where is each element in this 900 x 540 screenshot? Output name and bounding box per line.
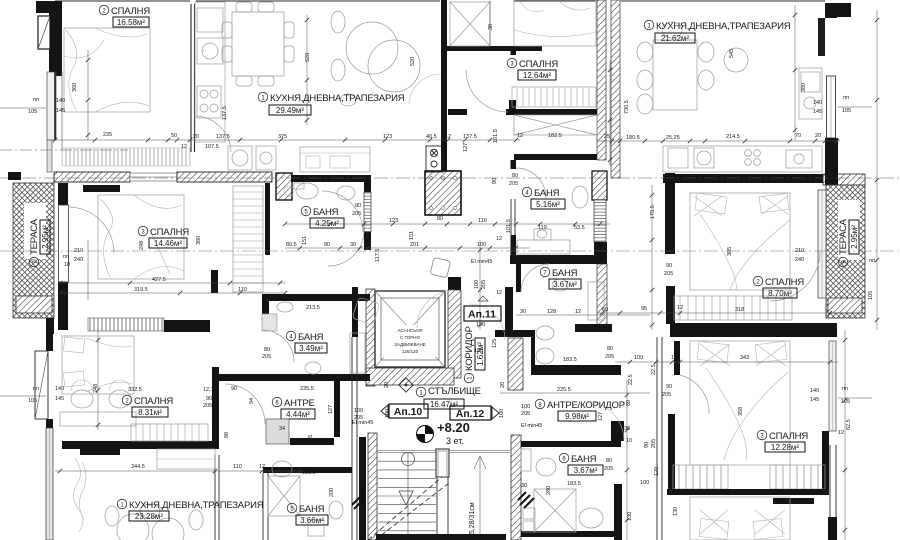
label antre6 — [272, 397, 315, 419]
bath7 west wall — [516, 264, 521, 292]
svg-text:9.98м²: 9.98м² — [565, 412, 589, 421]
svg-text:12,10: 12,10 — [203, 387, 217, 393]
svg-text:100: 100 — [640, 480, 649, 486]
scribble near stairs door — [352, 495, 364, 509]
svg-text:100: 100 — [354, 408, 363, 414]
bath5 door arc — [322, 191, 363, 232]
level mark +8.20 — [417, 420, 470, 446]
apartment tag Ap12 — [450, 406, 499, 420]
right exterior window kitchen — [827, 76, 836, 138]
svg-text:СТЪЛБИЩЕ: СТЪЛБИЩЕ — [428, 386, 481, 397]
svg-text:пп: пп — [33, 97, 39, 103]
svg-text:101.5: 101.5 — [506, 219, 512, 233]
svg-text:205: 205 — [664, 271, 673, 277]
svg-text:183.5: 183.5 — [563, 357, 577, 363]
elevator car — [375, 291, 445, 367]
right tall cabinet dark — [818, 18, 825, 56]
bedroom2BL wardrobe hangers — [131, 424, 208, 441]
svg-text:344.5: 344.5 — [131, 464, 145, 470]
elevator shaft bottom hatched wall — [366, 368, 454, 385]
svg-text:151: 151 — [302, 236, 308, 245]
antre6 door arc — [225, 384, 265, 424]
extra dim texts — [222, 106, 228, 120]
svg-text:12: 12 — [677, 305, 683, 311]
TR bed with pillows — [514, 0, 596, 46]
column corridor east wall upper — [352, 287, 358, 337]
party wall hatched band A — [597, 0, 606, 160]
svg-text:80: 80 — [606, 458, 612, 464]
bedroom3L wardrobe shelves — [233, 186, 263, 292]
svg-text:375: 375 — [278, 134, 287, 140]
bath4b door arc — [262, 330, 294, 362]
svg-text:СПАЛНЯ: СПАЛНЯ — [769, 431, 808, 442]
svg-text:22.5: 22.5 — [651, 364, 657, 375]
svg-text:101.5: 101.5 — [493, 129, 499, 143]
window in band — [130, 173, 177, 181]
TL washer/sink under band — [228, 146, 276, 170]
svg-text:210: 210 — [795, 248, 804, 254]
left wall lower black piece — [46, 330, 53, 351]
bedroom3BR wardrobe left — [673, 465, 728, 489]
antre6 east nib — [334, 381, 340, 437]
svg-text:29.49м²: 29.49м² — [276, 106, 305, 115]
svg-text:12: 12 — [445, 134, 451, 140]
svg-text:89: 89 — [626, 400, 632, 406]
svg-text:3.49м²: 3.49м² — [299, 344, 323, 353]
svg-text:137.5: 137.5 — [216, 134, 230, 140]
bath5 fixtures — [284, 183, 355, 200]
svg-text:БАНЯ: БАНЯ — [552, 268, 578, 279]
svg-text:145: 145 — [55, 396, 64, 402]
bath7 door arc — [521, 264, 549, 292]
svg-text:3.67м²: 3.67м² — [574, 466, 598, 475]
svg-text:318: 318 — [735, 307, 744, 313]
label bath5b — [287, 503, 328, 525]
svg-text:380: 380 — [801, 83, 807, 92]
left wall bottom gray band — [46, 428, 53, 540]
stair slope text vertical — [469, 502, 476, 538]
svg-text:183.5: 183.5 — [302, 470, 316, 476]
svg-text:380: 380 — [196, 236, 202, 245]
svg-text:130: 130 — [673, 507, 679, 516]
riser pipes TL kitchen — [426, 146, 443, 172]
svg-text:183.5: 183.5 — [567, 481, 581, 487]
svg-text:El min45: El min45 — [471, 259, 492, 265]
bottom right radiator2 — [482, 0, 484, 1]
svg-text:АНТРЕ/КОРИДОР: АНТРЕ/КОРИДОР — [547, 400, 625, 411]
svg-text:16.58м²: 16.58м² — [117, 18, 146, 27]
stair treads — [378, 452, 436, 540]
svg-text:53.5: 53.5 — [574, 225, 585, 231]
svg-text:110: 110 — [233, 464, 242, 470]
svg-text:21.62м²: 21.62м² — [661, 34, 690, 43]
svg-text:80: 80 — [301, 438, 307, 444]
bedroom2R west wall double lines — [665, 173, 675, 254]
bath4b fixtures — [262, 302, 365, 374]
svg-text:100: 100 — [474, 280, 480, 289]
svg-text:130: 130 — [627, 512, 633, 521]
bedroom2BL south wall L-shape — [62, 441, 215, 449]
TL round table circles — [331, 11, 420, 106]
diamond marker — [399, 378, 413, 392]
stairs west gray wall — [368, 433, 377, 540]
bath5b north wall — [263, 467, 352, 473]
svg-text:100: 100 — [476, 322, 485, 328]
bedroom3BR wardrobe right — [770, 465, 825, 489]
svg-text:100: 100 — [477, 242, 486, 248]
bath4 door arc — [516, 168, 546, 198]
svg-text:БАНЯ: БАНЯ — [571, 454, 597, 465]
svg-text:128: 128 — [547, 309, 556, 315]
svg-text:140: 140 — [810, 388, 819, 394]
wall below BR window — [822, 431, 829, 495]
bedroom3BR east wall lower double — [830, 445, 836, 540]
label stairwell — [416, 386, 481, 409]
svg-text:248: 248 — [139, 241, 145, 250]
label kitchen TL — [258, 92, 405, 115]
svg-text:1.62м²: 1.62м² — [476, 342, 485, 366]
svg-text:70: 70 — [795, 133, 801, 139]
svg-text:пп: пп — [63, 254, 69, 260]
svg-text:80: 80 — [264, 347, 270, 353]
wall stub below terrace — [46, 318, 54, 334]
svg-text:23.28м²: 23.28м² — [135, 512, 164, 521]
svg-text:120/120: 120/120 — [402, 349, 419, 354]
svg-text:СПАЛНЯ: СПАЛНЯ — [111, 6, 150, 17]
svg-text:пп: пп — [843, 95, 849, 101]
label bath7 — [540, 267, 581, 289]
partition bedroom/kitchen top-left — [191, 4, 195, 152]
bedroom2BL bed — [62, 336, 134, 394]
svg-text:127: 127 — [598, 412, 604, 421]
bedroom3BR door arc — [680, 375, 709, 414]
svg-text:90: 90 — [492, 178, 498, 184]
svg-text:100: 100 — [385, 409, 391, 418]
label antre8 — [535, 399, 625, 421]
antre6 cabinet — [266, 419, 289, 444]
terrace label plate — [24, 203, 46, 259]
label bath6 — [559, 453, 603, 475]
axis dash segment left — [0, 149, 128, 151]
svg-text:+8.20: +8.20 — [437, 420, 470, 435]
svg-text:20: 20 — [193, 134, 199, 140]
bottom right partial bed — [690, 497, 790, 540]
bedroom2BL desk chairs — [60, 380, 136, 426]
bedroom2R north wall hatched right part — [823, 174, 865, 185]
svg-text:210: 210 — [74, 248, 83, 254]
small tilted box corridor — [352, 297, 380, 325]
right terrace bench — [828, 298, 862, 313]
bath6 fixtures — [521, 449, 556, 532]
svg-text:20: 20 — [815, 133, 821, 139]
radiator bottom-left — [80, 449, 120, 455]
TR wardrobe hangers — [512, 87, 596, 107]
label bedroom3 TR — [507, 58, 558, 80]
svg-text:АНТРЕ: АНТРЕ — [284, 398, 315, 409]
svg-text:94: 94 — [249, 398, 255, 404]
bedroom2R north wall — [663, 174, 823, 183]
apartment tag Ap10 — [381, 404, 428, 418]
antre8 door arc — [584, 401, 624, 441]
svg-text:205: 205 — [308, 435, 314, 444]
svg-text:100: 100 — [521, 404, 530, 410]
svg-text:20: 20 — [500, 382, 506, 388]
svg-text:ТЕРАСА: ТЕРАСА — [838, 218, 849, 255]
svg-text:88: 88 — [224, 432, 230, 438]
radiator bottom right — [773, 498, 814, 504]
svg-text:15,28/31см: 15,28/31см — [469, 502, 476, 538]
bath6 east wall — [614, 484, 622, 540]
window top-left — [38, 16, 50, 49]
svg-text:205: 205 — [352, 211, 361, 217]
TL dining table rect with chairs — [222, 2, 294, 86]
svg-text:90: 90 — [666, 384, 672, 390]
svg-text:205: 205 — [509, 181, 518, 187]
svg-text:8.70м²: 8.70м² — [768, 289, 792, 298]
label kitchen TR — [644, 20, 791, 43]
svg-text:СПАЛНЯ: СПАЛНЯ — [519, 59, 558, 70]
svg-text:145: 145 — [813, 109, 822, 115]
hatched column right of bath4 — [592, 171, 607, 200]
svg-text:90: 90 — [231, 386, 237, 392]
bedroom2R bed — [690, 193, 790, 290]
svg-text:3.67м²: 3.67м² — [553, 280, 577, 289]
svg-text:2.95м²: 2.95м² — [41, 225, 50, 249]
right apt kitchen counter band — [663, 146, 822, 172]
svg-text:140: 140 — [56, 98, 65, 104]
svg-text:30: 30 — [521, 483, 527, 489]
svg-text:El min45: El min45 — [521, 423, 542, 429]
label bedroom3 BR — [757, 430, 808, 452]
svg-text:205: 205 — [203, 403, 212, 409]
bedroom3L south wall black — [164, 320, 210, 332]
svg-text:358: 358 — [738, 407, 744, 416]
wall between bedroom3L wardrobe and bath column — [265, 183, 270, 255]
svg-text:200: 200 — [329, 488, 335, 497]
black wall right of bath4 low — [594, 242, 607, 264]
bath6 north wall — [521, 441, 621, 447]
svg-text:105: 105 — [842, 108, 851, 114]
svg-text:343: 343 — [740, 355, 749, 361]
svg-text:СПАЛНЯ: СПАЛНЯ — [134, 396, 173, 407]
bottomright apt west wall upper — [674, 341, 680, 375]
svg-text:8.31м²: 8.31м² — [138, 408, 162, 417]
svg-text:427.5: 427.5 — [152, 277, 166, 283]
svg-text:520: 520 — [410, 57, 416, 66]
right kitchen counter column — [799, 68, 822, 119]
bedroom3BR south wall — [667, 489, 825, 495]
svg-text:80: 80 — [512, 173, 518, 179]
label bedroom2 TL — [99, 5, 150, 27]
nib wall right of bath5 top — [364, 178, 371, 192]
svg-text:205: 205 — [651, 439, 657, 448]
wall under top-center closet — [445, 46, 542, 51]
svg-text:12: 12 — [671, 355, 677, 361]
column corridor east wall lower — [352, 337, 357, 540]
svg-text:125: 125 — [492, 339, 498, 348]
bedroom2R wardrobe — [674, 296, 792, 320]
wardrobe divider wall TR — [506, 109, 597, 115]
right terrace label plate — [838, 200, 860, 260]
handrail newel rect — [436, 449, 449, 540]
TR dining table and chairs — [637, 22, 748, 114]
svg-text:545: 545 — [729, 49, 735, 58]
svg-text:175.5: 175.5 — [650, 205, 656, 219]
bath7 south wall — [575, 324, 612, 332]
svg-text:90: 90 — [666, 263, 672, 269]
dashdot axis line upper — [0, 177, 900, 179]
svg-text:25,25: 25,25 — [666, 135, 680, 141]
black joint column — [611, 421, 624, 441]
svg-text:235.5: 235.5 — [300, 386, 314, 392]
hatched wall segment 2 — [177, 172, 272, 182]
svg-text:Ап.11: Ап.11 — [468, 309, 496, 321]
svg-text:145: 145 — [56, 108, 65, 114]
svg-text:12: 12 — [181, 144, 187, 150]
elevator shaft west wall full height top — [441, 0, 447, 178]
terrace bench — [16, 296, 52, 313]
svg-text:280: 280 — [546, 486, 552, 495]
bath4b west wall — [262, 294, 269, 330]
label terrace L vertical — [29, 218, 50, 266]
svg-text:105: 105 — [841, 399, 850, 405]
svg-text:123: 123 — [383, 134, 392, 140]
bedroom3TR west wall upper — [511, 46, 517, 55]
svg-text:248: 248 — [93, 384, 99, 393]
apartment tag Ap11 — [464, 296, 501, 321]
svg-text:30: 30 — [520, 309, 526, 315]
door arc TL bedroom — [194, 116, 231, 152]
svg-text:730.5: 730.5 — [624, 100, 630, 114]
svg-text:12.28м²: 12.28м² — [771, 443, 800, 452]
svg-text:4.44м²: 4.44м² — [286, 410, 310, 419]
counterweight symbol — [430, 257, 451, 278]
radiator below band TL — [83, 185, 120, 192]
svg-text:110: 110 — [478, 218, 487, 224]
svg-text:90: 90 — [206, 396, 212, 402]
svg-text:12: 12 — [838, 430, 844, 436]
svg-text:80.5: 80.5 — [286, 242, 297, 248]
svg-text:240: 240 — [74, 257, 83, 263]
lined duct wall right of bath4 — [594, 200, 606, 242]
svg-text:201: 201 — [410, 242, 419, 248]
bedroom2R west wall black low — [666, 286, 675, 324]
svg-text:БАНЯ: БАНЯ — [313, 207, 339, 218]
bath6 south wall — [521, 531, 618, 537]
svg-text:18: 18 — [64, 262, 70, 268]
svg-text:3 ет.: 3 ет. — [446, 436, 464, 446]
bottomright apt west wall lower — [668, 414, 675, 495]
svg-text:12: 12 — [496, 236, 502, 242]
svg-text:3.66м²: 3.66м² — [300, 516, 324, 525]
bath4 fixtures — [517, 186, 588, 254]
right exterior top: black wall — [825, 3, 837, 18]
svg-text:225.5: 225.5 — [557, 387, 571, 393]
svg-text:213.5: 213.5 — [306, 305, 320, 311]
antre8 north wall — [495, 330, 531, 337]
svg-text:117.5: 117.5 — [375, 249, 381, 262]
bedroom2R south wall — [670, 323, 837, 337]
label bedroom3 L — [138, 226, 189, 248]
svg-text:100: 100 — [499, 409, 505, 418]
svg-text:БАНЯ: БАНЯ — [534, 188, 560, 199]
label bedroom2 R — [753, 276, 804, 298]
TR coat closet — [450, 2, 490, 46]
svg-text:38: 38 — [624, 426, 630, 432]
black wall top of bath5 — [291, 175, 371, 182]
svg-text:127: 127 — [328, 405, 334, 414]
svg-text:60: 60 — [602, 307, 608, 313]
antre6 south wall piece — [290, 438, 334, 445]
bed TL bedroom — [64, 28, 150, 112]
corridor double wall right side — [657, 337, 662, 540]
bath4 west wall segments — [511, 160, 517, 169]
svg-text:10: 10 — [626, 438, 632, 444]
bath6 shower — [534, 489, 603, 532]
svg-text:12: 12 — [259, 464, 265, 470]
corridor1/antre8 divider wall — [505, 287, 513, 330]
svg-text:КУХНЯ,ДНЕВНА,ТРАПЕЗАРИЯ: КУХНЯ,ДНЕВНА,ТРАПЕЗАРИЯ — [270, 93, 405, 104]
svg-text:235: 235 — [103, 132, 112, 138]
top edge wall lines — [55, 0, 825, 2]
wall segment bottom-right edge — [828, 517, 837, 540]
svg-text:БАНЯ: БАНЯ — [298, 332, 324, 343]
bedroom3BR east window band — [829, 341, 836, 431]
window sill comb under TL bedroom — [62, 148, 190, 166]
right terrace crosshatch — [826, 185, 865, 318]
elevator shaft left hatched wall — [366, 289, 375, 386]
svg-text:100: 100 — [634, 355, 643, 361]
bedroom2BL east return — [212, 367, 219, 449]
svg-text:240: 240 — [795, 257, 804, 263]
svg-text:140: 140 — [55, 386, 64, 392]
svg-text:119: 119 — [538, 225, 547, 231]
svg-text:40.5: 40.5 — [426, 134, 437, 140]
svg-text:137.5: 137.5 — [222, 106, 228, 120]
stairs east hatched wall — [511, 435, 521, 540]
svg-text:205: 205 — [605, 354, 614, 360]
door arc near shaft — [409, 74, 441, 104]
svg-text:123: 123 — [389, 218, 398, 224]
bedroom2R east window band — [818, 190, 826, 298]
svg-text:145: 145 — [810, 397, 819, 403]
stairs door gap lines — [378, 451, 510, 453]
svg-text:205: 205 — [354, 415, 363, 421]
svg-text:34: 34 — [279, 426, 285, 432]
svg-text:ТЕРАСА: ТЕРАСА — [29, 218, 40, 255]
bedroom2R door arc — [770, 251, 820, 301]
svg-text:205: 205 — [662, 392, 671, 398]
svg-text:182.5: 182.5 — [548, 133, 562, 139]
bedroom3L bed — [98, 195, 184, 279]
svg-text:62.5: 62.5 — [846, 419, 852, 430]
label bedroom2 BL — [122, 395, 173, 417]
svg-text:38: 38 — [488, 24, 494, 30]
bath5b west wall lines — [215, 455, 268, 540]
svg-text:205: 205 — [604, 466, 613, 472]
up arrow line — [474, 456, 486, 540]
svg-text:95: 95 — [641, 306, 647, 312]
svg-text:110: 110 — [238, 287, 247, 293]
bath7 east hatched wall — [597, 264, 607, 330]
svg-text:205: 205 — [262, 354, 271, 360]
label bath4b — [286, 331, 327, 353]
svg-text:80: 80 — [437, 216, 443, 222]
elevator shaft right hatched wall — [448, 277, 461, 290]
party wall hatched band B — [611, 0, 620, 178]
stairs bottom wall — [376, 534, 506, 540]
svg-text:50: 50 — [171, 133, 177, 139]
